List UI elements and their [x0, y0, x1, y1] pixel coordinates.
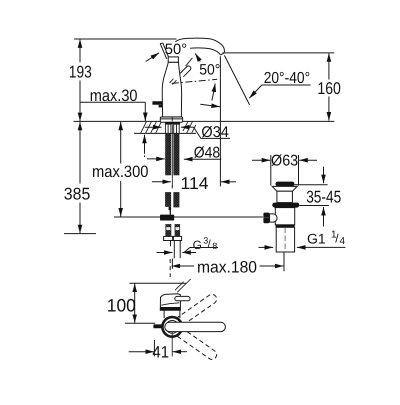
front lever pill [175, 296, 190, 300]
spout outlet face [221, 53, 224, 55]
spout lower edge [190, 48, 220, 55]
threaded shank right column [173, 133, 179, 175]
cap seam [161, 303, 179, 305]
pop-up waste: O63 dimension [270, 155, 272, 186]
svg-text:193: 193 [69, 63, 92, 82]
body collar/rim [168, 57, 178, 62]
front view reference line [130, 282, 187, 284]
hose connector left [165, 224, 171, 236]
waste pipe [276, 227, 294, 252]
waste seal flange [272, 203, 299, 208]
shank thread zone in deck hole [165, 125, 179, 134]
front view body cap [160, 294, 180, 311]
deck hatch right [183, 121, 196, 133]
lever swing arc arrow [212, 83, 215, 100]
aerator inner circle [166, 321, 179, 334]
dimension 41 [153, 340, 155, 356]
lever (closed position) [160, 44, 167, 59]
hose connector right [175, 224, 181, 236]
thread stub right [179, 241, 181, 259]
top reference line (faucet top level) [74, 38, 177, 40]
deck hatch left [141, 121, 162, 133]
mounting surface line [74, 120, 335, 122]
spout arm (solid) [165, 322, 226, 331]
flexible hose left segment [165, 192, 171, 207]
dimension O34 [145, 126, 162, 128]
svg-text:20°-40°: 20°-40° [264, 70, 310, 87]
centreline below [171, 332, 173, 357]
front body sides [163, 310, 165, 318]
faucet centreline dashes [171, 117, 173, 122]
leader arrow to pivot [195, 53, 200, 61]
lever axis dash-dot line [172, 79, 217, 83]
rod tee fitting [160, 215, 174, 221]
svg-text:G1: G1 [307, 231, 326, 247]
lever (open position) [180, 66, 191, 77]
dimension max.180 [171, 259, 173, 269]
base flange [160, 117, 182, 122]
dimension 385 [79, 122, 81, 184]
svg-text:8: 8 [212, 241, 217, 251]
deck bottom line [134, 132, 196, 134]
svg-text:41: 41 [152, 344, 169, 362]
rod pin [169, 210, 171, 215]
body reflection ticks [170, 79, 174, 83]
label G1 1/4 [259, 246, 274, 248]
connector nut left [164, 236, 173, 240]
svg-text:100: 100 [107, 295, 136, 315]
thread stub middle [173, 241, 175, 259]
385 bottom boundary line [64, 233, 96, 235]
waste plug dome [276, 182, 295, 187]
waste centreline [284, 228, 286, 251]
spout [175, 38, 224, 53]
100 bottom boundary line [125, 322, 155, 324]
dimension O48 [147, 158, 165, 160]
break ticks [177, 279, 190, 292]
svg-text:114: 114 [181, 174, 209, 193]
waste upper body [277, 191, 293, 202]
faucet body [162, 62, 181, 117]
svg-text:160: 160 [317, 79, 341, 98]
flexible hose right segment [173, 192, 179, 207]
open lever axis extension [186, 58, 193, 66]
hose tail [169, 207, 172, 210]
waste lower body [275, 208, 294, 225]
svg-text:4: 4 [340, 236, 346, 247]
dimension 193 [79, 39, 81, 62]
pop-up rod stub [153, 324, 162, 328]
svg-text:50°: 50° [165, 41, 187, 58]
water jet direction line [224, 55, 249, 105]
svg-text:35-45: 35-45 [306, 188, 341, 207]
dimension max.300 [120, 122, 122, 164]
waste cone flange [272, 186, 297, 191]
connector nut right [173, 236, 181, 240]
faucet centreline through shank [171, 125, 173, 188]
threaded shank left column [165, 133, 171, 175]
waste rod connector [270, 214, 278, 222]
dimension 160 [328, 53, 330, 79]
svg-text:max.180: max.180 [197, 259, 257, 277]
spout bearing ring [162, 317, 182, 337]
spout outlet reference line (160 top) [223, 52, 335, 54]
svg-text:G: G [193, 238, 202, 252]
dimension 114 [219, 56, 221, 186]
spout swivel range dashed (up) [170, 293, 219, 331]
pop-up rod knob on body [152, 101, 162, 105]
cap dark band [160, 307, 180, 310]
svg-text:max.300: max.300 [92, 163, 149, 181]
50 degree leader arrow (left) [146, 53, 159, 62]
pop-up rod line [114, 216, 263, 218]
svg-text:Ø63: Ø63 [271, 153, 298, 170]
jet angle arrow [200, 104, 220, 107]
svg-text:50°: 50° [199, 61, 220, 78]
svg-text:Ø48: Ø48 [194, 144, 220, 161]
shank collar band [165, 122, 180, 125]
spout swivel range dashed (down) [170, 323, 219, 361]
hose continuation dashes [169, 259, 171, 277]
dimension 35-45 [294, 184, 328, 186]
waste lever knob [263, 213, 269, 224]
thread stub left [170, 241, 172, 247]
dimension 100 [134, 284, 136, 323]
svg-text:385: 385 [64, 185, 91, 204]
waste thread band [276, 225, 295, 228]
svg-text:Ø34: Ø34 [201, 124, 229, 141]
